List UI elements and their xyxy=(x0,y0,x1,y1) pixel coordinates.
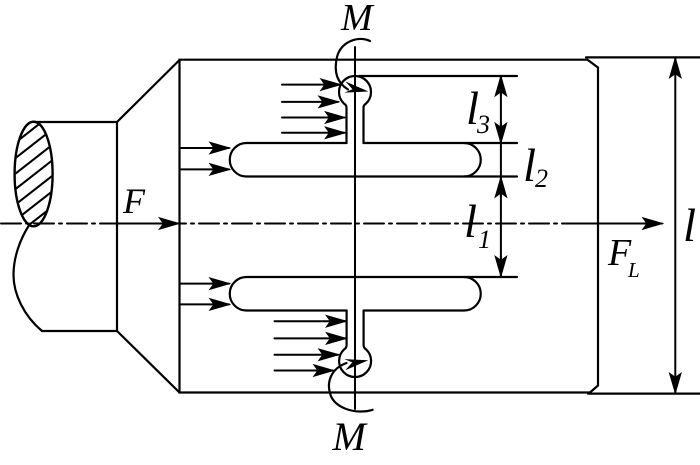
svg-text:2: 2 xyxy=(535,164,548,193)
svg-text:l: l xyxy=(683,200,696,252)
svg-text:3: 3 xyxy=(476,110,490,139)
svg-text:F: F xyxy=(122,181,146,221)
svg-text:1: 1 xyxy=(478,225,491,254)
svg-text:M: M xyxy=(340,0,375,39)
svg-text:M: M xyxy=(332,414,369,459)
svg-text:l: l xyxy=(464,196,477,248)
svg-text:L: L xyxy=(627,258,640,282)
